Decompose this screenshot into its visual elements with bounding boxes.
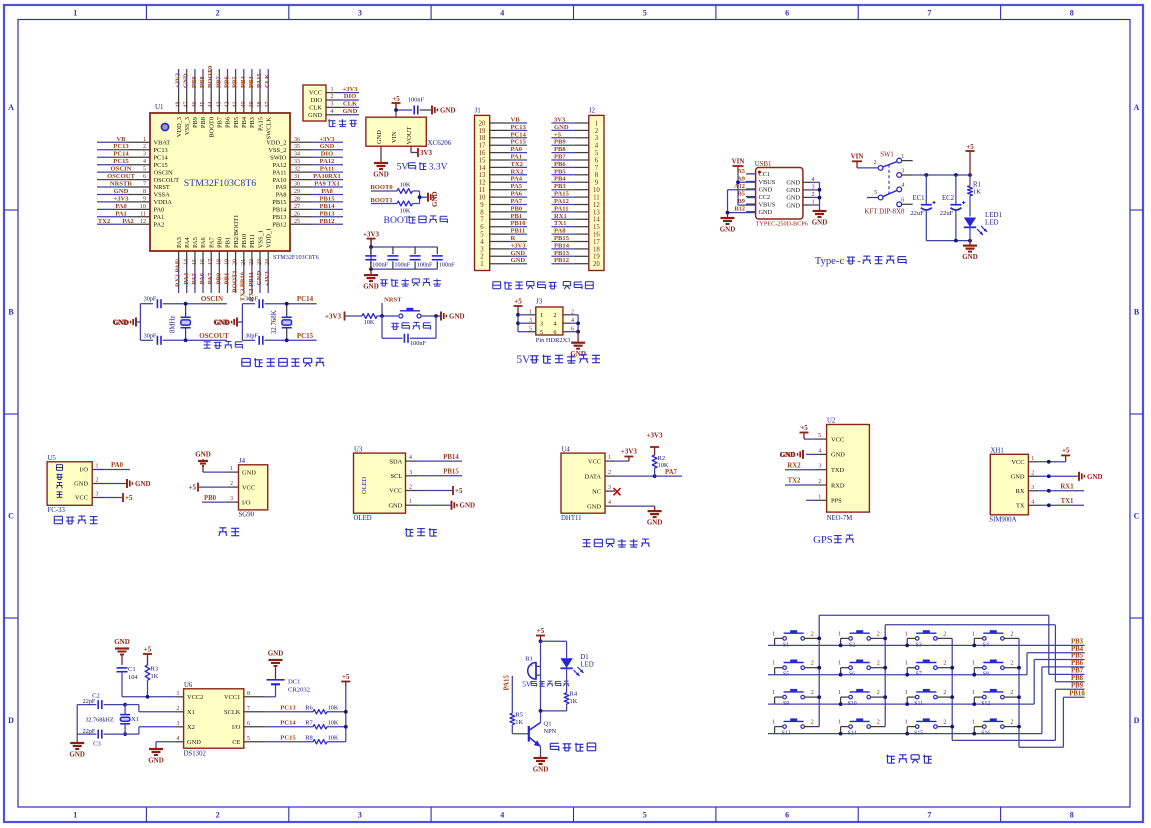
title BOOT setting circuit [384, 215, 448, 226]
ground above J4 [195, 451, 228, 473]
title 5V external backup power [517, 354, 601, 366]
svg-text:2: 2 [811, 191, 814, 198]
svg-text:+3V3: +3V3 [319, 136, 335, 143]
svg-text:2: 2 [1010, 631, 1013, 637]
power +5 rail right of U6 [341, 673, 350, 742]
svg-text:1: 1 [230, 466, 233, 472]
keyboard route col3 to PB9 [952, 689, 1084, 740]
USB1 B5 stub [747, 197, 756, 199]
U6 pin4 GND [148, 742, 175, 765]
U1 pin 46 PB9 wire/net PB9 [191, 69, 199, 128]
button S15 [905, 718, 953, 736]
U6 left pin 3 stub [175, 721, 183, 727]
svg-text:PB15: PB15 [319, 195, 335, 202]
download port pin 3 net CLK [326, 101, 359, 108]
svg-text:100nF: 100nF [394, 262, 410, 269]
U1 pin 24 VDD_1 wire/net +3V3 [264, 228, 272, 293]
svg-text:GND: GND [69, 751, 85, 759]
svg-text:PA8: PA8 [554, 228, 566, 235]
U1 pin 28 PB15 wire/net PB15 [272, 195, 343, 206]
svg-text:VCC: VCC [75, 495, 88, 502]
svg-text:PA5: PA5 [192, 237, 199, 248]
svg-text:DIO: DIO [311, 97, 323, 104]
module U2 GPS body [827, 418, 870, 522]
svg-text:GND: GND [962, 253, 978, 261]
svg-text:SCL: SCL [391, 473, 403, 480]
svg-text:J2: J2 [589, 107, 596, 115]
svg-text:PB10: PB10 [1069, 690, 1085, 697]
wire buzzer to collector node [540, 675, 542, 711]
svg-text:47: 47 [184, 102, 190, 108]
svg-text:PPS: PPS [831, 498, 842, 505]
svg-text:VCC: VCC [242, 484, 255, 491]
J1 pin 16 net PA0 [479, 146, 527, 157]
svg-text:TYPEC-250D-BCP6: TYPEC-250D-BCP6 [756, 221, 808, 228]
svg-text:1: 1 [772, 690, 775, 696]
svg-text:PA6: PA6 [200, 237, 207, 248]
svg-text:3: 3 [901, 167, 904, 174]
svg-text:PA15: PA15 [554, 191, 570, 198]
svg-text:44: 44 [208, 101, 214, 107]
svg-text:3: 3 [331, 102, 334, 108]
J2 pin 9 net PB4 [551, 176, 598, 187]
J1 pin 13 net RX2 [479, 168, 527, 179]
svg-text:5: 5 [643, 811, 647, 820]
svg-text:U5: U5 [48, 455, 57, 462]
svg-text:1: 1 [972, 690, 975, 696]
svg-text:3V3: 3V3 [554, 117, 566, 124]
svg-text:A: A [1134, 103, 1140, 112]
svg-text:30pF: 30pF [245, 332, 258, 339]
svg-text:40: 40 [241, 101, 247, 107]
svg-text:OSCOUT: OSCOUT [154, 177, 180, 184]
svg-text:6: 6 [247, 721, 250, 727]
svg-text:GND: GND [759, 186, 773, 193]
U1 pin 3 PC14 wire/net PC14 [97, 151, 169, 162]
svg-text:CR2032: CR2032 [288, 687, 310, 694]
svg-text:1: 1 [143, 137, 146, 143]
title crystal circuit [204, 341, 243, 348]
svg-text:4: 4 [818, 448, 821, 454]
svg-text:1: 1 [772, 720, 775, 726]
svg-text:DHT11: DHT11 [561, 515, 582, 522]
svg-text:R5: R5 [515, 712, 523, 719]
title servo [219, 528, 240, 536]
svg-text:+5: +5 [125, 494, 133, 502]
U1 pin 32 PA11 wire/net PA11 [273, 166, 343, 177]
svg-text:+5: +5 [1062, 447, 1070, 455]
sensor U4 DHT11 body [561, 446, 605, 522]
svg-text:NRSTR: NRSTR [110, 181, 133, 188]
rtc U6 DS1302 body [184, 682, 244, 757]
SW1 pin6 wire [902, 203, 913, 205]
svg-text:VCC: VCC [309, 90, 322, 97]
svg-text:X1: X1 [187, 709, 195, 716]
svg-text:GND: GND [268, 650, 284, 658]
svg-text:1: 1 [905, 631, 908, 637]
svg-text:PC14: PC14 [280, 719, 296, 726]
svg-text:RX2 PA3: RX2 PA3 [175, 260, 182, 287]
svg-text:NC: NC [592, 488, 601, 495]
svg-text:PA11: PA11 [320, 166, 335, 173]
svg-text:PB3: PB3 [1071, 639, 1084, 646]
svg-text:GND: GND [647, 519, 663, 527]
USB1 left pin B9 [738, 198, 756, 205]
svg-text:3: 3 [540, 321, 543, 328]
U1 pin 26 PB13 wire/net PB13 [272, 210, 343, 221]
svg-text:SW1: SW1 [880, 152, 894, 159]
svg-text:CC2: CC2 [759, 194, 771, 201]
svg-text:42: 42 [224, 101, 230, 107]
J1 pin 11 net PA5 [479, 183, 527, 194]
svg-text:PB15: PB15 [272, 199, 286, 206]
svg-text:+5: +5 [342, 673, 350, 681]
U6 right pin 7 stub [244, 706, 265, 712]
svg-text:9: 9 [595, 180, 599, 187]
svg-text:PC15: PC15 [297, 332, 314, 340]
filter caps rails [369, 239, 437, 271]
svg-text:GND: GND [831, 452, 845, 459]
svg-text:PB9: PB9 [1071, 683, 1084, 690]
capacitor 100nF reset [382, 316, 436, 347]
U2 pin 2 stub [815, 479, 827, 485]
LED1 diode [964, 211, 1003, 241]
J2 pin 20 net PB12 [551, 257, 600, 268]
svg-text:4: 4 [595, 143, 599, 150]
svg-text:5V: 5V [522, 680, 532, 689]
power +5 R3 [143, 646, 152, 666]
U4 pin 3 NC stub [605, 485, 615, 491]
wire C1 R3 node to U6 pin1 [122, 695, 175, 699]
svg-text:13: 13 [593, 209, 600, 216]
svg-text:31: 31 [294, 174, 300, 180]
ground type-c right [962, 241, 978, 262]
U1 pin 45 PB8 wire/net PB8 [199, 69, 207, 128]
svg-text:1: 1 [905, 690, 908, 696]
title download port [328, 119, 357, 126]
U1 pin 7 NRST wire/net NRSTR [97, 181, 170, 192]
power +5 type-c [966, 143, 975, 175]
svg-text:4: 4 [143, 159, 146, 165]
crystal1 rails [140, 304, 153, 341]
U1 pin 12 PA2 wire/net TX2 PA2 [97, 218, 164, 229]
svg-text:17: 17 [593, 239, 600, 246]
button S10 [838, 689, 885, 707]
U2 pin 5 stub [815, 433, 827, 439]
svg-text:GND: GND [343, 108, 358, 115]
crystal circuit X1 32.768kHZ [77, 693, 175, 748]
svg-text:23: 23 [257, 259, 263, 265]
svg-text:1: 1 [905, 661, 908, 667]
resistor R7 10K net PC14 [265, 719, 346, 729]
svg-text:+5: +5 [800, 424, 808, 432]
button reset switch [399, 308, 440, 318]
keyboard route row3 to PB5 [1034, 660, 1084, 705]
svg-text:D: D [8, 716, 14, 725]
svg-text:BOOT0: BOOT0 [370, 184, 393, 191]
svg-text:46: 46 [192, 101, 198, 107]
capacitor 30pF bottom crystal2 [245, 332, 316, 345]
svg-text:7: 7 [480, 217, 484, 224]
U6 left pin 1 stub [175, 691, 183, 697]
J1 pin 5 net PB11 [480, 228, 527, 239]
U5 pin 1 I/O [79, 464, 104, 474]
download port pin 4 net GND [326, 108, 359, 115]
U1 pin 23 VSS_1 wire/net GND [256, 230, 264, 293]
svg-text:1: 1 [905, 720, 908, 726]
svg-text:6: 6 [785, 811, 789, 820]
keyboard row buses [768, 644, 1085, 648]
svg-text:VSS_1: VSS_1 [257, 230, 264, 248]
svg-text:Type-c: Type-c [815, 255, 845, 267]
SW1 pin5 wire [867, 197, 878, 199]
XH1 pin 1 stub [1028, 456, 1038, 462]
svg-text:D1: D1 [580, 654, 588, 661]
svg-text:PB14: PB14 [319, 203, 335, 210]
svg-text:PA12: PA12 [273, 162, 287, 169]
svg-text:SWIO: SWIO [270, 154, 287, 161]
svg-text:PB0: PB0 [215, 272, 222, 284]
svg-text:1: 1 [772, 631, 775, 637]
svg-text:1: 1 [608, 455, 611, 461]
svg-text:1: 1 [811, 199, 814, 206]
svg-text:+5: +5 [554, 131, 562, 138]
svg-text:PB14: PB14 [272, 207, 287, 214]
svg-text:I/O: I/O [232, 724, 241, 731]
svg-text:VCC: VCC [389, 488, 402, 495]
svg-text:DATA: DATA [584, 473, 601, 480]
U1 pin 15 PA5 wire/net PA5 [191, 237, 199, 293]
svg-text:22pF: 22pF [83, 728, 96, 735]
J1 pin 14 net TX2 [479, 161, 527, 172]
U6 left pin 2 stub [175, 706, 183, 712]
svg-text:GND: GND [812, 219, 828, 227]
svg-text:16: 16 [593, 232, 600, 239]
svg-text:15: 15 [593, 224, 600, 231]
J1 pin 6 net PB10 [480, 220, 527, 231]
label 5V active buzzer [522, 680, 569, 689]
svg-text:PB8: PB8 [199, 76, 206, 88]
svg-text:PB6: PB6 [223, 76, 230, 88]
svg-text:34: 34 [294, 152, 300, 158]
keyboard top route col2 to PB8 [885, 625, 1084, 682]
J2 pin 5 net PB8 [551, 146, 598, 157]
svg-text:BOOT0: BOOT0 [207, 65, 214, 88]
svg-text:VCC: VCC [588, 458, 601, 465]
svg-text:EC1: EC1 [912, 195, 924, 202]
J1 pin 2 net GND [480, 250, 527, 261]
svg-text:1: 1 [177, 691, 180, 697]
U3 pin 1 GND [388, 499, 417, 509]
svg-text:PA3: PA3 [176, 237, 183, 248]
U1 pin 40 PB4 wire/net PB4 [240, 69, 248, 128]
svg-text:19: 19 [479, 128, 486, 135]
svg-text:PA10: PA10 [273, 177, 287, 184]
U2 pin 1 stub [815, 494, 827, 500]
J1 pin 10 net PA6 [479, 191, 527, 202]
svg-text:OSCIN: OSCIN [201, 295, 223, 303]
U2 RXD net TX2 [785, 478, 815, 485]
svg-text:5: 5 [480, 232, 484, 239]
svg-text:2: 2 [811, 661, 814, 667]
svg-text:PA7: PA7 [207, 272, 214, 284]
svg-text:PA1: PA1 [154, 214, 165, 221]
svg-text:C1: C1 [128, 666, 136, 673]
U6 right pin 8 stub [244, 691, 265, 697]
svg-text:GND: GND [114, 638, 130, 646]
svg-text:RXD: RXD [831, 482, 845, 489]
svg-text:2: 2 [877, 690, 880, 696]
svg-text:GND: GND [786, 195, 800, 202]
U1 pin 42 PB6 wire/net PB6 [223, 69, 231, 128]
U1 pin 2 PC13 wire/net PC13 [97, 143, 168, 154]
svg-text:3: 3 [358, 9, 362, 18]
svg-text:R4: R4 [570, 691, 578, 698]
sensor U5 IR body [47, 455, 92, 514]
svg-text:PC13: PC13 [113, 143, 129, 150]
ground USB1 left [720, 214, 736, 234]
svg-text:1: 1 [972, 720, 975, 726]
svg-text:TX1: TX1 [554, 220, 566, 227]
svg-text:C: C [1134, 512, 1140, 521]
power +5 buzzer [536, 627, 545, 643]
svg-text:2: 2 [331, 94, 334, 100]
svg-text:+3V3: +3V3 [342, 86, 358, 93]
svg-text:10K: 10K [328, 719, 339, 726]
J4 pin2 +5 [189, 483, 229, 492]
svg-text:RX1: RX1 [554, 213, 567, 220]
USB1 left pin A9 [737, 176, 755, 183]
U1 pin 43 PB7 wire/net PB7 [215, 69, 223, 128]
svg-text:3: 3 [177, 721, 180, 727]
U4 GND to ground [615, 506, 662, 526]
svg-text:2: 2 [177, 706, 180, 712]
ground USB1 right [812, 209, 828, 227]
svg-text:PB15: PB15 [443, 469, 459, 476]
U1 pin 44 BOOT0 wire/net BOOT0 [207, 65, 215, 138]
svg-text:R6: R6 [305, 704, 312, 711]
svg-text:4: 4 [500, 811, 504, 820]
J2 pin 11 net PA15 [551, 191, 599, 202]
svg-text:PA4: PA4 [183, 272, 190, 284]
svg-text:KFT DIP-8X8: KFT DIP-8X8 [864, 208, 905, 215]
ground crystal 1 [112, 318, 140, 328]
U6 right pin 5 stub [244, 736, 265, 742]
svg-text:VDD_3: VDD_3 [176, 117, 183, 137]
display U3 OLED body [354, 446, 406, 522]
svg-text:1: 1 [73, 811, 77, 820]
J1 pin 19 net PC13 [479, 124, 527, 135]
module XH1 SIM900A body [989, 447, 1028, 523]
J2 pin 8 net PB5 [551, 168, 598, 179]
J2 pin 10 net PB3 [551, 183, 600, 194]
svg-text:B: B [8, 307, 14, 316]
svg-text:+3V3: +3V3 [511, 242, 527, 249]
svg-text:PB1: PB1 [511, 213, 523, 220]
button S8 [972, 660, 1019, 678]
svg-text:7: 7 [927, 811, 931, 820]
svg-text:5: 5 [874, 189, 877, 196]
svg-text:10K: 10K [328, 704, 339, 711]
XH1 GND ground [1038, 472, 1103, 481]
svg-text:PA6: PA6 [511, 191, 523, 198]
svg-text:15: 15 [479, 157, 486, 164]
svg-text:PB8: PB8 [200, 117, 207, 128]
svg-text:2: 2 [143, 144, 146, 150]
svg-text:GND: GND [431, 191, 439, 207]
svg-text:VBAT: VBAT [154, 140, 171, 147]
svg-text:PA15: PA15 [257, 117, 264, 131]
resistor R4 1K [539, 691, 578, 713]
title type-c power circuit [815, 255, 906, 267]
svg-text:PB12: PB12 [554, 257, 570, 264]
title sound-light alarm [550, 743, 595, 752]
XH1 pin 3 stub [1028, 485, 1038, 491]
XC6206 VOUT to 3V3 [411, 146, 433, 157]
regulator XC6206 body [366, 117, 452, 147]
svg-text:CLK: CLK [343, 101, 358, 108]
U2 PPS stub wire [806, 499, 815, 501]
svg-text:24: 24 [265, 259, 271, 265]
svg-text:J1: J1 [475, 107, 482, 115]
U2 TXD net RX2 [785, 462, 815, 469]
svg-text:X1: X1 [131, 716, 139, 723]
svg-text:17: 17 [479, 143, 486, 150]
svg-text:41: 41 [233, 102, 239, 108]
svg-text:2: 2 [608, 470, 611, 476]
svg-text:SDA: SDA [390, 458, 403, 465]
svg-text:RX2: RX2 [787, 462, 801, 469]
svg-text:GND: GND [786, 180, 800, 187]
svg-text:U2: U2 [827, 418, 836, 425]
svg-text:USB1: USB1 [755, 161, 772, 168]
svg-text:PA8: PA8 [276, 192, 287, 199]
svg-text:3: 3 [143, 152, 146, 158]
svg-text:20: 20 [233, 259, 239, 265]
capacitor C1 104 [117, 666, 139, 697]
svg-text:PC13: PC13 [280, 704, 296, 711]
capacitor C104 100nF filter [432, 247, 455, 269]
button S9 [772, 689, 819, 707]
net label NRST wire up [380, 297, 402, 318]
U1 pin 38 PA15 wire/net PA15 [256, 69, 264, 131]
svg-text:A: A [8, 103, 14, 112]
U1 pin 4 PC15 wire/net PC15 [97, 158, 168, 169]
USB1 left pin A5 [737, 168, 755, 175]
USB1 A5 stub [747, 173, 756, 175]
svg-text:1: 1 [331, 87, 334, 93]
svg-text:12: 12 [479, 180, 486, 187]
svg-text:GND: GND [308, 112, 322, 119]
svg-text:33: 33 [294, 159, 300, 165]
svg-text:PB1: PB1 [223, 273, 230, 285]
svg-text:4: 4 [811, 176, 814, 183]
svg-text:39: 39 [249, 102, 255, 108]
svg-text:TXD: TXD [831, 467, 845, 474]
svg-text:BOOT: BOOT [384, 215, 410, 226]
svg-text:4: 4 [608, 500, 611, 506]
svg-text:1: 1 [838, 690, 841, 696]
title display screen [405, 528, 437, 536]
svg-text:22pF: 22pF [83, 698, 96, 705]
svg-text:U6: U6 [184, 682, 193, 689]
svg-text:6: 6 [480, 224, 484, 231]
svg-text:6: 6 [143, 174, 146, 180]
U1 pin 20 PB2/BOOT1 wire/net BOOT1 [232, 215, 240, 293]
title IR pair tube [54, 516, 97, 524]
svg-text:3.3V: 3.3V [429, 162, 448, 173]
svg-text:VSS_2: VSS_2 [268, 147, 286, 154]
